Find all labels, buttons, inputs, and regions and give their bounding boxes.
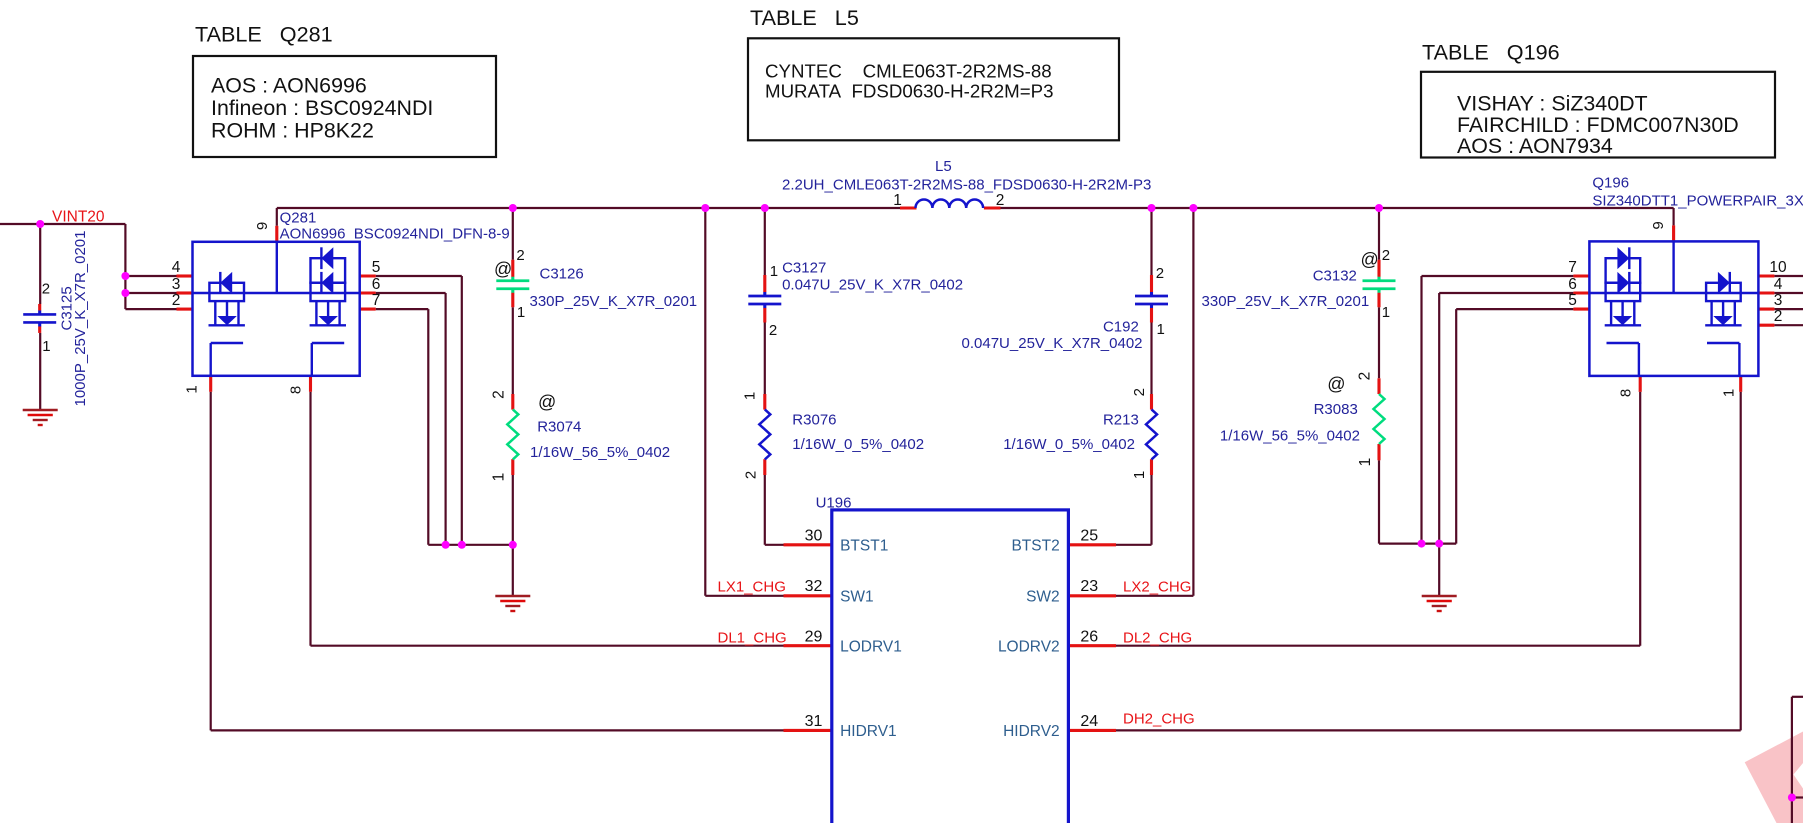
svg-text:2: 2 <box>1774 308 1783 325</box>
svg-text:U196: U196 <box>816 494 852 511</box>
svg-text:TABLE L5: TABLE L5 <box>750 5 859 30</box>
svg-text:DL1_CHG: DL1_CHG <box>718 629 787 646</box>
svg-text:24: 24 <box>1080 713 1098 730</box>
svg-text:SW2: SW2 <box>1026 588 1060 605</box>
svg-text:C192: C192 <box>1103 319 1139 336</box>
svg-text:R3074: R3074 <box>537 419 581 436</box>
svg-text:8: 8 <box>1618 389 1635 397</box>
svg-text:10: 10 <box>1769 259 1787 276</box>
svg-text:4: 4 <box>172 259 181 276</box>
svg-text:DH2_CHG: DH2_CHG <box>1123 711 1195 728</box>
svg-text:0.047U_25V_K_X7R_0402: 0.047U_25V_K_X7R_0402 <box>782 276 963 293</box>
svg-text:1/16W_0_5%_0402: 1/16W_0_5%_0402 <box>1003 436 1135 453</box>
svg-text:1/16W_56_5%_0402: 1/16W_56_5%_0402 <box>530 444 670 461</box>
svg-text:SW1: SW1 <box>840 588 874 605</box>
svg-text:8: 8 <box>288 386 305 394</box>
svg-text:1/16W_0_5%_0402: 1/16W_0_5%_0402 <box>792 436 924 453</box>
svg-text:SIZ340DTT1_POWERPAIR_3X: SIZ340DTT1_POWERPAIR_3X <box>1592 193 1803 210</box>
svg-text:AON6996 BSC0924NDI_DFN-8-9: AON6996 BSC0924NDI_DFN-8-9 <box>280 226 510 243</box>
svg-text:2: 2 <box>1156 265 1164 282</box>
svg-text:1: 1 <box>491 473 508 482</box>
svg-text:R3076: R3076 <box>792 412 836 429</box>
svg-text:1: 1 <box>1357 458 1374 467</box>
svg-text:29: 29 <box>805 629 823 646</box>
svg-text:VINT20: VINT20 <box>52 209 105 226</box>
svg-text:2.2UH_CMLE063T-2R2MS-88_FDSD06: 2.2UH_CMLE063T-2R2MS-88_FDSD0630-H-2R2M-… <box>782 177 1151 194</box>
svg-text:1: 1 <box>893 192 902 209</box>
svg-text:32: 32 <box>805 578 823 595</box>
svg-text:BTST2: BTST2 <box>1011 538 1059 555</box>
svg-text:2: 2 <box>743 471 760 479</box>
svg-text:CYNTEC CMLE063T-2R2MS-88: CYNTEC CMLE063T-2R2MS-88 <box>765 61 1052 82</box>
svg-text:4: 4 <box>1774 276 1783 293</box>
svg-text:FAIRCHILD : FDMC007N30D: FAIRCHILD : FDMC007N30D <box>1457 113 1739 137</box>
svg-text:L5: L5 <box>935 158 952 175</box>
svg-text:C3127: C3127 <box>782 260 826 277</box>
svg-text:1: 1 <box>742 392 759 400</box>
svg-text:@: @ <box>1361 250 1379 270</box>
svg-text:@: @ <box>538 392 556 412</box>
svg-text:5: 5 <box>1568 292 1577 309</box>
svg-text:@: @ <box>494 259 512 279</box>
svg-text:MURATA FDSD0630-H-2R2M=P3: MURATA FDSD0630-H-2R2M=P3 <box>765 81 1054 102</box>
svg-text:9: 9 <box>254 222 271 230</box>
svg-text:TABLE Q281: TABLE Q281 <box>195 22 333 47</box>
svg-text:C3132: C3132 <box>1313 268 1357 285</box>
svg-text:1: 1 <box>770 263 778 280</box>
svg-text:9: 9 <box>1650 221 1667 229</box>
svg-text:25: 25 <box>1080 528 1098 545</box>
svg-text:Q281: Q281 <box>280 210 317 227</box>
svg-text:HIDRV1: HIDRV1 <box>840 723 897 740</box>
svg-text:LX2_CHG: LX2_CHG <box>1123 579 1191 596</box>
svg-text:2: 2 <box>516 247 524 264</box>
svg-text:ROHM : HP8K22: ROHM : HP8K22 <box>211 119 374 143</box>
svg-text:1: 1 <box>517 304 525 321</box>
svg-text:2: 2 <box>42 281 50 298</box>
svg-text:23: 23 <box>1080 578 1098 595</box>
svg-text:2: 2 <box>491 390 508 399</box>
svg-text:Q196: Q196 <box>1592 175 1629 192</box>
svg-text:@: @ <box>1327 374 1345 394</box>
svg-text:1: 1 <box>1382 304 1390 321</box>
svg-text:2: 2 <box>1356 372 1373 381</box>
svg-text:C3126: C3126 <box>540 266 584 283</box>
svg-text:1: 1 <box>184 385 201 393</box>
svg-text:Infineon : BSC0924NDI: Infineon : BSC0924NDI <box>211 96 433 120</box>
svg-text:330P_25V_K_X7R_0201: 330P_25V_K_X7R_0201 <box>530 293 698 310</box>
svg-text:330P_25V_K_X7R_0201: 330P_25V_K_X7R_0201 <box>1202 293 1370 310</box>
svg-text:1/16W_56_5%_0402: 1/16W_56_5%_0402 <box>1220 428 1360 445</box>
svg-text:TABLE Q196: TABLE Q196 <box>1422 40 1560 65</box>
svg-text:5: 5 <box>372 259 381 276</box>
svg-text:2: 2 <box>1131 388 1148 396</box>
svg-text:HIDRV2: HIDRV2 <box>1003 723 1060 740</box>
svg-text:LODRV2: LODRV2 <box>998 639 1060 656</box>
svg-text:AOS : AON7934: AOS : AON7934 <box>1457 134 1613 158</box>
svg-text:26: 26 <box>1080 629 1098 646</box>
svg-text:6: 6 <box>372 276 381 293</box>
svg-text:1: 1 <box>1721 389 1738 397</box>
svg-text:AOS : AON6996: AOS : AON6996 <box>211 74 367 98</box>
svg-text:BTST1: BTST1 <box>840 538 888 555</box>
svg-text:2: 2 <box>1382 247 1390 264</box>
svg-text:6: 6 <box>1568 276 1577 293</box>
svg-text:2: 2 <box>769 322 777 339</box>
svg-text:1: 1 <box>1131 471 1148 479</box>
svg-text:DL2_CHG: DL2_CHG <box>1123 629 1192 646</box>
svg-text:LODRV1: LODRV1 <box>840 639 902 656</box>
svg-text:1000P_25V_K_X7R_0201: 1000P_25V_K_X7R_0201 <box>72 231 89 407</box>
svg-text:7: 7 <box>372 292 381 309</box>
svg-text:3: 3 <box>172 276 181 293</box>
svg-text:R3083: R3083 <box>1314 401 1358 418</box>
svg-text:7: 7 <box>1568 259 1577 276</box>
svg-text:3: 3 <box>1774 292 1783 309</box>
svg-text:1: 1 <box>42 338 50 355</box>
svg-text:31: 31 <box>805 713 823 730</box>
svg-text:LX1_CHG: LX1_CHG <box>718 579 786 596</box>
svg-text:R213: R213 <box>1103 412 1139 429</box>
svg-text:30: 30 <box>805 528 823 545</box>
svg-text:2: 2 <box>172 292 181 309</box>
svg-text:1: 1 <box>1157 321 1165 338</box>
svg-text:0.047U_25V_K_X7R_0402: 0.047U_25V_K_X7R_0402 <box>962 335 1143 352</box>
svg-text:2: 2 <box>996 192 1005 209</box>
